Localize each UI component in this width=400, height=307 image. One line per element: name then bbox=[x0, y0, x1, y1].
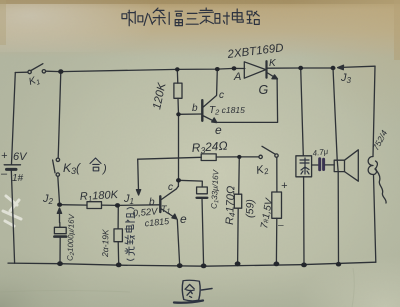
capacitor C2 arrow J2 bbox=[59, 212, 61, 222]
wire left rail bbox=[12, 73, 16, 165]
svg-text:–: – bbox=[0, 168, 8, 180]
svg-text:–: – bbox=[277, 220, 284, 231]
figure label yi (一) bbox=[202, 289, 213, 291]
wire K2 to battery bbox=[276, 157, 278, 192]
switch K2 bbox=[259, 155, 262, 158]
junction R3 / R4 bbox=[237, 155, 241, 159]
wire top rail bbox=[46, 68, 245, 71]
capacitor 4.7u bbox=[318, 159, 321, 170]
junction bottom rail / speaker bbox=[336, 262, 341, 267]
junction R1 / photoresistor / T1 base bbox=[115, 203, 120, 208]
bottom rail bbox=[8, 262, 376, 266]
svg-text:2α-19K: 2α-19K bbox=[100, 229, 111, 258]
wire vertical to K3 bbox=[58, 72, 61, 158]
switch K3 bbox=[56, 158, 59, 161]
battery B2 1.5V bbox=[272, 192, 282, 218]
wire J1 to R3 bbox=[138, 157, 202, 159]
junction T1 collector / C1 bbox=[176, 178, 181, 182]
guangmin dianzu label bbox=[125, 208, 135, 261]
wire R1 to node bbox=[102, 204, 161, 207]
resistor R4 bbox=[238, 157, 241, 194]
wire K3 to J2 node bbox=[58, 176, 60, 204]
coil 752 bbox=[368, 157, 376, 175]
contact J1 arrow bbox=[137, 159, 140, 191]
svg-text:6V: 6V bbox=[13, 151, 28, 163]
svg-text:G: G bbox=[259, 83, 269, 97]
wire cathode to right bbox=[268, 67, 334, 69]
junction bottom rail / C2 bbox=[57, 261, 63, 266]
svg-text:e: e bbox=[215, 123, 222, 137]
transistor T2 bbox=[201, 100, 203, 121]
wire right rail bbox=[373, 66, 375, 156]
svg-text:+: + bbox=[1, 150, 8, 162]
svg-text:A: A bbox=[233, 71, 241, 83]
recorder module box bbox=[296, 156, 312, 177]
svg-text:b: b bbox=[192, 103, 198, 114]
wire C1 top bbox=[179, 180, 203, 187]
wire top rail left bbox=[15, 71, 28, 73]
svg-text:+: + bbox=[281, 180, 288, 192]
recorder lu (录) char bbox=[300, 158, 309, 174]
svg-text:T2 c1815: T2 c1815 bbox=[209, 105, 245, 117]
junction node J2 bbox=[57, 203, 62, 207]
tan top band bbox=[0, 0, 400, 58]
wire to T2 base bbox=[179, 113, 202, 115]
title char san (三) bbox=[186, 13, 198, 24]
junction top rail / speaker branch bbox=[331, 66, 336, 70]
photoresistor RG bbox=[117, 205, 119, 229]
speaker bbox=[334, 160, 344, 171]
thyristor SCR pair bbox=[244, 62, 265, 78]
wire vertical 录 module bbox=[301, 68, 304, 156]
title char dian (电) bbox=[232, 9, 243, 22]
svg-text:R4170Ω: R4170Ω bbox=[224, 186, 238, 226]
wire T2 emitter loop to gate bbox=[216, 79, 277, 122]
resistor 120K bbox=[176, 69, 179, 83]
svg-text:1#: 1# bbox=[12, 173, 24, 184]
capacitor C1 33u bbox=[197, 187, 208, 194]
svg-text:(59): (59) bbox=[244, 199, 257, 218]
wire vertical speaker bbox=[333, 68, 339, 264]
junction bottom rail / photoresistor bbox=[116, 263, 122, 268]
junction bottom rail / T1 emitter bbox=[177, 263, 183, 268]
figure label tu (图) bbox=[182, 280, 200, 301]
switch K1 bbox=[28, 70, 31, 73]
title char ba (叭) bbox=[138, 13, 152, 25]
junction bottom rail / recorder bbox=[301, 263, 307, 268]
title char lu (路) bbox=[247, 11, 259, 24]
paper creases bbox=[0, 268, 354, 307]
resistor R3 24ohm bbox=[201, 154, 216, 161]
wire J2 to R1 bbox=[60, 204, 87, 206]
title char ding (定) bbox=[199, 8, 213, 24]
title char tiao (条) bbox=[152, 8, 165, 25]
junction bottom rail / battery B2 bbox=[274, 262, 280, 267]
svg-text:e: e bbox=[180, 212, 187, 226]
title char shi (时) bbox=[215, 12, 229, 24]
junction bottom rail / R4 bbox=[235, 261, 241, 266]
white-out scribble left bbox=[3, 196, 21, 226]
junction top rail / 120K branch bbox=[175, 67, 180, 71]
junction top rail / K3 branch bbox=[58, 69, 63, 74]
junction 120K / T2 base bbox=[176, 112, 181, 116]
wire module to cap bbox=[312, 164, 318, 166]
resistor R1 180K bbox=[87, 202, 102, 209]
K3 he (合) char bbox=[90, 158, 101, 171]
svg-text:c: c bbox=[168, 182, 173, 193]
underline bbox=[174, 301, 203, 303]
junction top rail / recorder branch bbox=[298, 66, 303, 70]
contact J3 arrow wire bbox=[339, 66, 375, 67]
capacitor C2 bbox=[54, 227, 66, 233]
battery B1 6V bbox=[4, 164, 20, 166]
junction bottom rail / C1 bbox=[201, 264, 207, 269]
title char fu (幅) bbox=[169, 11, 182, 25]
junction top rail / T2 collector bbox=[215, 67, 220, 71]
CJK drawn glyphs bbox=[90, 8, 309, 303]
title char la (喇) bbox=[122, 10, 135, 26]
transistor T1 bbox=[159, 196, 161, 212]
junction node A anode bbox=[232, 66, 237, 70]
svg-text:c: c bbox=[219, 90, 224, 101]
